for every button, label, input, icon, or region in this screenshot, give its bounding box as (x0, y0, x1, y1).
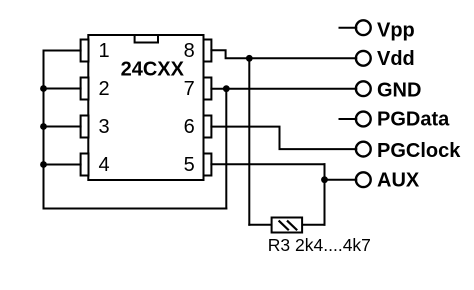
svg-text:Vdd: Vdd (377, 48, 415, 70)
svg-text:PGClock: PGClock (377, 140, 461, 162)
junction node AUX (321, 176, 328, 183)
svg-text:7: 7 (184, 78, 195, 100)
terminal circle Vdd (356, 51, 371, 66)
pin 6 stub (204, 116, 212, 138)
wire PGData terminal stub (340, 118, 357, 120)
pin 1 stub (81, 40, 89, 62)
terminal circle AUX (356, 172, 371, 187)
svg-text:24CXX: 24CXX (121, 58, 185, 80)
wire resistor left lead (249, 224, 271, 226)
svg-text:2: 2 (99, 78, 110, 100)
svg-text:R3 2k4....4k7: R3 2k4....4k7 (268, 235, 371, 255)
junction node pin2 (40, 85, 47, 92)
wire pin1 to ground bus (44, 50, 81, 52)
junction node GND (223, 85, 230, 92)
wire AUX riser (324, 164, 326, 225)
wire pin3 branch (44, 126, 81, 128)
svg-text:PGData: PGData (377, 108, 450, 130)
pin 7 stub (204, 78, 212, 100)
terminal circle PGData (356, 112, 371, 127)
resistor R3 body (272, 218, 303, 233)
chip U1 (24CXX) body (88, 35, 203, 180)
pin 5 stub (204, 154, 212, 176)
wire pin8 to Vdd terminal (211, 50, 356, 58)
svg-text:1: 1 (99, 40, 110, 62)
pin 4 stub (81, 154, 89, 176)
wire Vdd drop to resistor (248, 58, 250, 224)
svg-text:GND: GND (377, 79, 421, 101)
terminal circle GND (356, 81, 371, 96)
svg-text:8: 8 (184, 40, 195, 62)
pin 3 stub (81, 116, 89, 138)
wire pin6 to PGClock terminal (211, 127, 356, 150)
wire resistor right lead (302, 224, 324, 226)
svg-text:AUX: AUX (377, 169, 420, 191)
chip top orientation notch (135, 35, 158, 43)
wire pin4 branch (44, 164, 81, 166)
terminal circle Vpp (356, 20, 371, 35)
svg-text:6: 6 (184, 116, 195, 138)
resistor R3 symbol slashes (279, 221, 296, 229)
svg-text:5: 5 (184, 154, 195, 176)
wire ground bus left vertical (43, 51, 45, 209)
pin 8 stub (204, 40, 212, 62)
terminal circle PGClock (356, 142, 371, 157)
wire pin2 branch (44, 88, 81, 90)
junction node Vdd (246, 55, 253, 62)
wire pin7 to GND terminal (211, 88, 356, 90)
wire ground riser to pin7 net (225, 89, 227, 209)
wire Vpp terminal stub (340, 27, 357, 29)
junction node pin4 (40, 161, 47, 168)
wire ground bus bottom horizontal (44, 208, 227, 210)
wire AUX node to AUX terminal (325, 179, 357, 181)
svg-text:4: 4 (99, 154, 110, 176)
wire pin5 to AUX node (211, 163, 324, 165)
svg-text:3: 3 (99, 116, 110, 138)
pin 2 stub (81, 78, 89, 100)
svg-text:Vpp: Vpp (377, 20, 415, 42)
junction node pin3 (40, 123, 47, 130)
